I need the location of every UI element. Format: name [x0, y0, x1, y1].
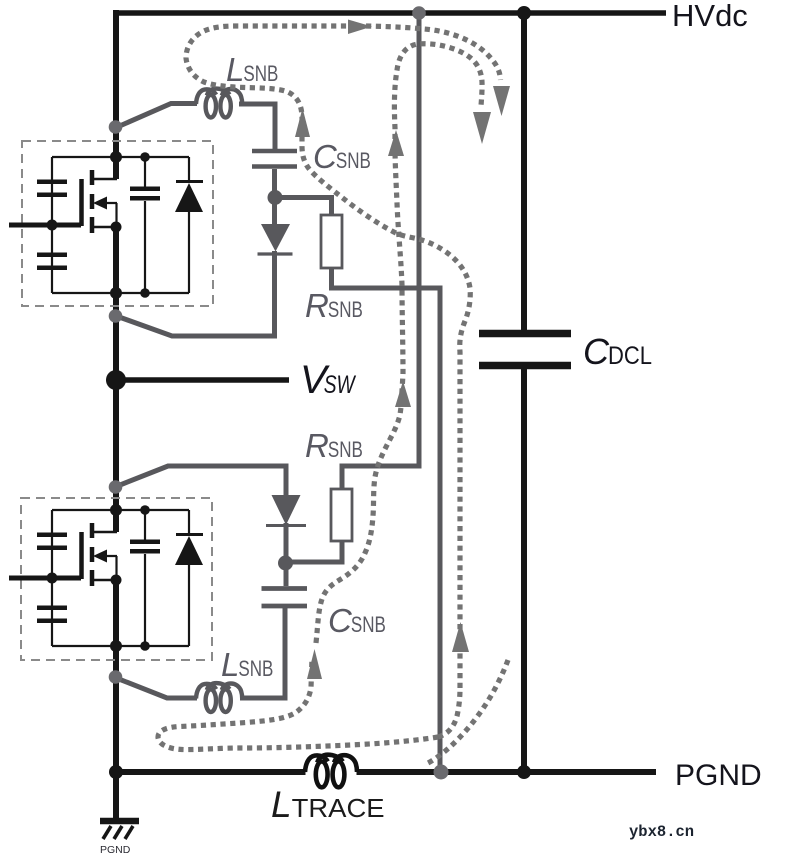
capacitor CSNB (top) [252, 151, 297, 167]
node rail-return (gray) [109, 309, 123, 323]
wire rail to LSNB [115, 104, 197, 129]
wire right rail upper (HVdc to CDCL) [521, 13, 527, 331]
resistor RSNB (top) [321, 215, 342, 268]
node M1 source bus [110, 287, 122, 299]
transistor Q1 source stub [93, 226, 117, 229]
transistor Q1 channel [90, 170, 95, 233]
wire rail to diode DSNB2 [115, 466, 286, 496]
wire dotted loop: right bend up [438, 688, 460, 737]
transistor Q2 drain stub [93, 531, 117, 534]
capacitor M2 output [130, 510, 160, 646]
node rail-LSNB (gray) [109, 670, 123, 684]
wire M2 gate lead [9, 576, 81, 581]
wire node to RSNB [272, 198, 332, 217]
arrow up (CSNB bottom) [307, 649, 322, 679]
wire diode to node [284, 523, 289, 564]
wire M2 left branch [51, 510, 53, 646]
wire HVdc top rail [113, 10, 666, 16]
wire left rail middle segment [113, 227, 119, 532]
arrow up (middle path lower) [395, 381, 411, 407]
wire HVdc to RSNB (long) [342, 13, 419, 490]
node diode-RSNB-CSNB junction [278, 556, 293, 571]
node M2 cap top [140, 505, 150, 515]
inductor LSNB (bottom) [196, 683, 242, 712]
transistor Q2 body arrow [98, 555, 117, 557]
capacitor M1 gate-source [37, 253, 67, 271]
svg-text:ybx8.cn: ybx8.cn [629, 823, 694, 841]
svg-text:HVdc: HVdc [672, 0, 748, 33]
transistor Q2 channel [90, 523, 95, 586]
transistor Q1 gate bar [79, 179, 84, 226]
wire right rail lower (CDCL to PGND) [521, 368, 527, 772]
wire M2 drain rail [113, 510, 119, 532]
wire M1 left branch [51, 157, 53, 293]
inductor LTRACE [305, 755, 357, 788]
arrow down (inner hook) [473, 112, 491, 144]
wire dotted loop: lower-right tail [428, 660, 508, 763]
wire Vsw stub [116, 377, 289, 383]
diode D2 body [175, 510, 203, 646]
diode DSNB1 [261, 224, 290, 252]
node HVdc-CDCL junction [517, 6, 531, 20]
module M2 boundary (dashed) [21, 498, 212, 660]
node HVdc-snubber (gray) [412, 6, 426, 20]
capacitor CSNB (bottom) [262, 589, 308, 607]
wire M1 bottom bus [52, 292, 189, 294]
svg-text:PGND: PGND [100, 844, 131, 856]
node PGND-snubber (gray) [434, 765, 449, 780]
wire left rail upper segment [113, 10, 119, 179]
node rail-LSNB (gray) [109, 120, 123, 134]
node CSNB-diode-RSNB junction [268, 190, 283, 205]
wire M1 top bus [52, 156, 189, 158]
transistor Q1 body arrow [98, 202, 117, 204]
node rail-diode (gray) [109, 480, 123, 494]
capacitor M1 output [130, 157, 160, 293]
node Q2 source [111, 575, 122, 586]
node M2 gate [47, 573, 58, 584]
node M1 cap top [140, 152, 150, 162]
inductor LSNB (top) [196, 89, 242, 118]
capacitor CDCL [479, 330, 571, 338]
wire node to CSNB (bottom) [284, 562, 289, 586]
wire RSNB to PGND trace [332, 267, 441, 770]
transistor Q2 source stub [93, 579, 117, 582]
node PGND-CDCL junction [517, 765, 531, 779]
transistor Q1 drain stub [93, 178, 117, 181]
node M1 gate [47, 220, 58, 231]
node M1 drain bus [110, 151, 122, 163]
node M2 drain bus [110, 504, 122, 516]
arrow up (right vertical) [452, 622, 469, 652]
transistor Q2 gate bar [79, 532, 84, 579]
wire CSNB to LSNB [240, 608, 285, 698]
wire diode to rail [115, 251, 275, 336]
diode D1 body [175, 157, 203, 293]
node M2 source bus [110, 640, 122, 652]
node M2 cap bottom [140, 641, 150, 651]
capacitor M2 gate-source [37, 606, 67, 624]
wire LSNB to rail [115, 678, 197, 699]
node Q1 source [111, 222, 122, 233]
node PGND-left rail junction [109, 765, 123, 779]
arrow down (outer hook) [493, 86, 510, 116]
capacitor M1 gate-drain [37, 180, 67, 198]
wire CSNB to node [272, 169, 277, 198]
diode DSNB2 [272, 495, 301, 525]
wire dotted loop: top snubber big loop [186, 26, 501, 688]
module M1 boundary (dashed) [22, 141, 213, 306]
wire dotted loop: middle S path [316, 44, 482, 643]
wire M1 gate lead [9, 223, 81, 228]
wire M2 top bus [52, 509, 189, 511]
ground PGND symbol [100, 818, 139, 825]
node M1 cap bottom [140, 288, 150, 298]
wire RSNB to node [285, 540, 342, 562]
capacitor M2 gate-drain [37, 533, 67, 551]
arrow up (middle path upper) [388, 130, 404, 156]
arrow up (CSNB top) [295, 108, 310, 137]
wire dotted loop: bottom horizontal + left hook [158, 658, 438, 750]
wire node to diode DSNB1 [272, 197, 277, 225]
wire left rail lower segment [113, 580, 119, 822]
arrow right (top run) [348, 20, 372, 35]
node Vsw [106, 370, 126, 390]
wire LSNB to CSNB [239, 104, 275, 149]
wire M2 bottom bus [52, 645, 189, 647]
wire PGND bottom rail [113, 769, 306, 775]
resistor RSNB (bottom) [331, 489, 352, 541]
svg-text:PGND: PGND [675, 759, 762, 792]
